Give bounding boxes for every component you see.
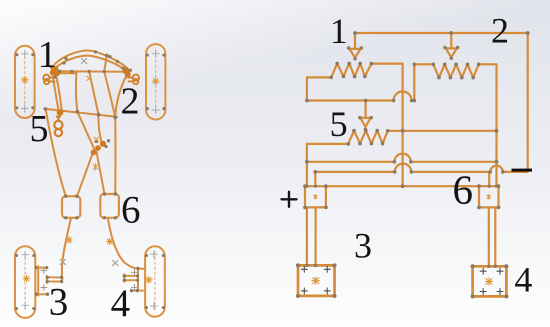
gray x mark on arch xyxy=(81,58,86,63)
mark plus block center xyxy=(314,195,317,199)
wheel bottom-right outline xyxy=(145,246,165,316)
wire net100 from R1 left xyxy=(307,64,433,100)
node dots block pins xyxy=(305,185,308,188)
wheel top-left axis xyxy=(24,52,26,113)
strand chord to L1 dot xyxy=(76,72,77,111)
dots node cluster xyxy=(95,140,98,143)
svg-text:1: 1 xyxy=(330,11,348,51)
dots arch chord xyxy=(70,70,73,73)
wheel top-right outline xyxy=(146,44,165,119)
plus marks wheel top-left xyxy=(21,50,28,57)
fork right prongs xyxy=(124,274,138,281)
fork right top link xyxy=(139,268,146,270)
node dots plus block corners xyxy=(303,184,307,188)
mark square4 center xyxy=(485,278,492,285)
dots cluster edges xyxy=(49,65,52,68)
component square 4 xyxy=(473,266,507,296)
star mark wheel bottom-left center xyxy=(23,275,30,282)
hop bridge minus rail over vert x402 xyxy=(395,164,412,172)
arrow tap 5 xyxy=(360,101,370,127)
plus marks wheel top-right xyxy=(152,50,159,57)
dots fork right xyxy=(123,274,126,277)
sloped line L1 xyxy=(45,109,117,117)
hop bridge minus rail over vert x496 xyxy=(490,166,503,172)
strand chord to L1 junction xyxy=(89,72,98,115)
strand SD to corner xyxy=(104,72,115,118)
wire pins down from right block xyxy=(489,207,496,266)
gray x mark on C4 xyxy=(113,260,118,265)
connector block mid-right xyxy=(100,194,119,218)
hop bridge net100 over vert x402 xyxy=(394,92,412,101)
resistor R5 xyxy=(307,131,497,144)
svg-text:6: 6 xyxy=(121,188,141,231)
junction dots schematic xyxy=(296,31,530,298)
node dots square3 corners xyxy=(296,263,300,267)
black corner plus marks square4 xyxy=(480,268,486,274)
wire vertical x496 xyxy=(495,64,497,186)
svg-text:4: 4 xyxy=(111,282,131,325)
wire top rail net1-2 xyxy=(355,32,528,34)
center marks of blocks xyxy=(312,195,493,285)
harness node stub xyxy=(104,55,107,71)
node dots minus rail xyxy=(313,170,317,174)
dots fork left xyxy=(60,276,63,279)
svg-text:3: 3 xyxy=(49,280,69,323)
gray x mark on C3 xyxy=(60,259,65,264)
wire vertical x315 minus-rail to plus block xyxy=(314,172,316,186)
wire vertical x306 to plus block xyxy=(306,144,308,186)
harness arch outer curve xyxy=(51,51,128,69)
wire vertical x489 to right block xyxy=(488,172,490,186)
fitting left cluster blob xyxy=(50,66,131,155)
wheel top-left outline xyxy=(15,46,35,118)
dots arch curves xyxy=(64,57,67,60)
strand pair cluster to blob5 xyxy=(53,77,59,111)
rim dots wheel top-left xyxy=(15,53,18,56)
node dots square4 corners xyxy=(471,264,475,268)
svg-text:1: 1 xyxy=(38,34,57,76)
rim dots wheel bottom-right xyxy=(145,254,148,257)
harness arch inner curve xyxy=(53,56,126,71)
label minus terminal xyxy=(512,169,533,172)
star mark wheel top-left center xyxy=(21,76,28,83)
svg-text:4: 4 xyxy=(514,260,532,300)
black corner plus marks square3 xyxy=(301,266,503,294)
star mark on strand below node xyxy=(93,164,98,171)
node dots top rail xyxy=(353,31,357,35)
gray plus mark fork left xyxy=(41,267,47,273)
fork left stem xyxy=(37,266,39,295)
component square 3 xyxy=(298,265,335,296)
chord lower double segment xyxy=(58,72,77,74)
strand X1 into node cluster xyxy=(77,112,94,150)
fork left prongs xyxy=(47,276,61,283)
fork left top bar xyxy=(36,267,47,269)
wire net186 between blocks xyxy=(326,185,479,187)
wheel bottom-right axis xyxy=(154,252,156,311)
wire right vertical to minus xyxy=(527,33,529,172)
svg-text:2: 2 xyxy=(121,81,140,123)
dots connector mid-right pins xyxy=(103,192,106,195)
svg-text:3: 3 xyxy=(354,225,372,265)
fitting right cluster blob xyxy=(123,67,130,74)
dots connector mid-left pins xyxy=(64,194,67,197)
svg-text:2: 2 xyxy=(491,10,509,50)
wheel bottom-left axis xyxy=(24,252,26,312)
strand node to right connector xyxy=(97,152,105,194)
svg-text:5: 5 xyxy=(330,104,348,144)
node dots R5 vertices xyxy=(346,142,350,146)
plus marks wheel bottom-left xyxy=(22,251,29,258)
resistor R1 xyxy=(307,63,403,77)
rim dots wheel bottom-left xyxy=(15,254,18,257)
node dots R2 vertices xyxy=(431,62,435,66)
connector block mid-left xyxy=(62,196,80,218)
svg-text:5: 5 xyxy=(30,108,49,150)
fork right bar xyxy=(137,269,139,285)
wheel top-right axis xyxy=(155,50,157,114)
plus marks wheel bottom-right xyxy=(150,251,157,258)
resistor R2 xyxy=(433,64,496,77)
dots L1 xyxy=(43,107,47,111)
harness arch chord xyxy=(58,70,125,72)
fork right bottom link xyxy=(132,284,146,290)
schematic number labels xyxy=(330,10,533,299)
wire net161 xyxy=(307,161,497,163)
node dot net186 junction xyxy=(401,184,405,188)
terminal block 6 (right) xyxy=(479,186,499,207)
star mark on curve C4 xyxy=(106,238,113,245)
harness number labels xyxy=(30,34,141,325)
wire pins down from plus block xyxy=(307,207,316,265)
wire vertical from R1 right xyxy=(402,64,404,187)
label plus terminal xyxy=(282,192,297,207)
arrow tap 2 xyxy=(446,33,457,57)
hop bridge net161 over vert x402 xyxy=(394,154,410,162)
star mark on curve C3 xyxy=(66,237,73,244)
star mark on Xv xyxy=(94,137,98,141)
node dots net161 xyxy=(305,160,309,164)
wire minus rail y172 xyxy=(315,171,527,173)
star mark wheel bottom-right center xyxy=(145,276,152,283)
blob on L1 line item5 xyxy=(57,109,64,116)
fitting left rings xyxy=(43,75,49,81)
node dots right block corners xyxy=(477,184,481,188)
node cluster blobs xyxy=(100,141,106,147)
strand long left to connector xyxy=(46,110,66,196)
strand Xv junction to node cluster xyxy=(98,115,101,143)
rim dots wheel top-right xyxy=(146,54,149,57)
vertical V1 to connector xyxy=(114,117,116,193)
strand from right cluster xyxy=(115,76,126,117)
node dots net131 xyxy=(401,129,405,133)
fitting right rings xyxy=(133,75,139,81)
fork left bottom bar xyxy=(36,293,48,295)
node dots arrow5 xyxy=(358,116,361,119)
pendant rings item 5 xyxy=(54,121,62,129)
star mark on strand near chord xyxy=(87,76,91,80)
star mark wheel top-right center xyxy=(152,78,159,85)
node dots net100 xyxy=(305,99,309,103)
node dots arrow2 xyxy=(443,46,446,49)
node dots arrow1 xyxy=(347,46,350,49)
strand node to left connector xyxy=(77,153,93,196)
drop curve C3 to left fork xyxy=(62,218,71,279)
wheel bottom-left outline xyxy=(15,246,35,318)
svg-text:6: 6 xyxy=(453,166,474,212)
arrow tap 1 xyxy=(350,33,361,58)
gray plus mark fork right xyxy=(132,270,138,276)
node dots R1 vertices xyxy=(329,76,333,80)
drop curve C4 to right fork xyxy=(108,218,138,269)
mark square3 center xyxy=(312,277,319,284)
mark right block center xyxy=(487,195,490,199)
terminal block plus (left) xyxy=(305,186,326,207)
